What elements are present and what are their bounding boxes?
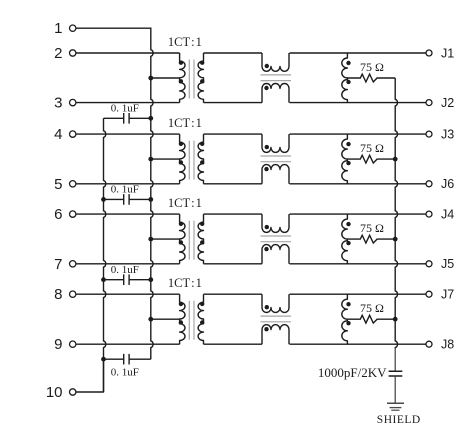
- junction: capacitor C3 left plate on bus: [101, 277, 106, 282]
- ground (shield) symbol: [387, 403, 404, 410]
- transformer T4 core: [189, 301, 194, 340]
- polarity dot T2 primary lower: [179, 160, 183, 164]
- wire T2 secondary top to choke: [204, 133, 263, 135]
- pin 9 terminal: [54, 336, 76, 353]
- svg-text:1CT : 1: 1CT : 1: [168, 35, 202, 49]
- junction: T2 center tap on bus: [148, 157, 153, 162]
- svg-text:75 Ω: 75 Ω: [360, 301, 384, 315]
- svg-text:4: 4: [54, 126, 62, 143]
- wire T3 secondary top to choke: [204, 213, 263, 215]
- wire termination rail (vertical, to shield capacitor): [395, 78, 397, 348]
- resistor 75 ohm block 2: [347, 155, 395, 163]
- wire pin 4 to T2 primary top: [76, 133, 179, 135]
- pin 10 terminal: [46, 384, 76, 401]
- svg-text:J4: J4: [441, 208, 454, 222]
- wire T2 center tap: [151, 158, 180, 160]
- terminal J3: [426, 128, 454, 142]
- polarity dot T3 secondary upper: [200, 222, 204, 226]
- transformer T1 core: [189, 60, 194, 99]
- svg-text:5: 5: [54, 176, 62, 193]
- transformer T1 secondary winding: [198, 53, 203, 103]
- junction: capacitor C1 left plate on bus: [0, 0, 1, 1]
- choke L1 upper winding: [262, 53, 289, 71]
- transformer T3 secondary winding: [198, 214, 203, 264]
- resistor 75 ohm block 1: [347, 74, 395, 82]
- wire T1 secondary bottom to choke: [204, 102, 263, 104]
- svg-text:0. 1uF: 0. 1uF: [111, 264, 139, 276]
- transformer T2 secondary winding: [198, 134, 203, 184]
- wire T2 secondary bottom to choke: [204, 183, 263, 185]
- choke L2 lower winding: [262, 165, 289, 184]
- polarity dot autotransformer 1 lower: [346, 80, 350, 84]
- junction: capacitor C1 right plate on bus: [148, 116, 153, 121]
- wire capacitor bus (pin 10 net, vertical): [104, 118, 106, 392]
- junction: capacitor C2 left plate on bus: [101, 197, 106, 202]
- svg-text:75 Ω: 75 Ω: [360, 221, 384, 235]
- terminal J8: [426, 338, 454, 352]
- polarity dot choke L1 lower: [264, 86, 268, 90]
- wire T1 center tap: [151, 77, 180, 79]
- junction: T4 center tap on bus: [148, 317, 153, 322]
- polarity dot T1 primary lower: [179, 79, 183, 83]
- polarity dot choke L2 lower: [264, 167, 268, 171]
- wire choke to J2 (bottom): [290, 102, 426, 104]
- polarity dot T4 primary upper: [179, 302, 183, 306]
- svg-text:8: 8: [54, 286, 62, 303]
- wire pin 5 to T2 primary bottom: [76, 183, 179, 185]
- wire T4 center tap: [151, 318, 180, 320]
- polarity dot T3 primary upper: [179, 222, 183, 226]
- polarity dot T3 secondary lower: [200, 240, 204, 244]
- terminal J1: [426, 46, 454, 60]
- choke L2 upper winding: [262, 134, 289, 152]
- wire pin 8 to T4 primary top: [76, 293, 179, 295]
- polarity dot autotransformer 3 upper: [346, 222, 350, 226]
- svg-text:10: 10: [46, 384, 63, 401]
- svg-text:J1: J1: [441, 46, 454, 60]
- polarity dot autotransformer 2 lower: [346, 161, 350, 165]
- polarity dot T4 secondary lower: [200, 320, 204, 324]
- junction: capacitor C3 right plate on bus: [148, 277, 153, 282]
- polarity dot choke L1 upper: [265, 64, 269, 68]
- wire pin 2 to T1 primary top: [76, 52, 179, 54]
- junction: 75 ohm resistor 2 on termination rail: [393, 157, 398, 162]
- transformer T4 primary winding: [180, 294, 185, 344]
- polarity dot choke L2 upper: [265, 145, 269, 149]
- svg-text:1000pF/2KV: 1000pF/2KV: [318, 365, 387, 380]
- pin 1 terminal: [54, 20, 76, 37]
- terminal J4: [426, 208, 454, 222]
- polarity dot T4 secondary upper: [200, 302, 204, 306]
- svg-text:75 Ω: 75 Ω: [360, 60, 384, 74]
- resistor 75 ohm block 4: [347, 315, 395, 323]
- wire T3 secondary bottom to choke: [204, 263, 263, 265]
- choke L1 core: [261, 75, 292, 81]
- choke L4 core: [261, 316, 292, 322]
- transformer T1 primary winding: [180, 53, 185, 103]
- wire choke to J1 (top): [290, 52, 426, 54]
- choke L4 upper winding: [262, 294, 289, 312]
- choke L3 core: [261, 236, 292, 242]
- svg-text:J5: J5: [441, 257, 454, 271]
- terminal J2: [426, 96, 454, 110]
- polarity dot autotransformer 1 upper: [346, 61, 350, 65]
- wire choke to J5 (bottom): [290, 263, 426, 265]
- polarity dot autotransformer 4 lower: [346, 321, 350, 325]
- capacitor C1 0.1uF: [104, 113, 151, 124]
- wire pin 10 to capacitor bus: [76, 359, 103, 392]
- svg-text:J7: J7: [441, 288, 454, 302]
- wire pin 1 to center-tap bus: [76, 27, 151, 29]
- svg-text:1CT : 1: 1CT : 1: [168, 276, 202, 290]
- transformer T2 primary winding: [180, 134, 185, 184]
- polarity dot autotransformer 4 upper: [346, 302, 350, 306]
- polarity dot choke L4 lower: [264, 327, 268, 331]
- svg-text:9: 9: [54, 336, 62, 353]
- svg-text:1CT : 1: 1CT : 1: [168, 116, 202, 130]
- polarity dot choke L4 upper: [265, 305, 269, 309]
- autotransformer coil block 3: [342, 214, 348, 264]
- capacitor 1000pF/2KV: [389, 371, 403, 376]
- choke L4 lower winding: [262, 325, 289, 345]
- transformer T3 core: [189, 221, 194, 260]
- polarity dot autotransformer 2 upper: [346, 142, 350, 146]
- wire T4 secondary top to choke: [204, 293, 263, 295]
- wire center-tap bus (pin 1 net, vertical): [151, 28, 153, 359]
- polarity dot T4 primary lower: [179, 320, 183, 324]
- wire T4 secondary bottom to choke: [204, 343, 263, 345]
- wire choke to J7 (top): [290, 293, 426, 295]
- polarity dot T1 secondary lower: [200, 79, 204, 83]
- pin 2 terminal: [54, 45, 76, 62]
- polarity dot choke L3 lower: [264, 247, 268, 251]
- wire pin 3 to T1 primary bottom: [76, 102, 179, 104]
- pin 8 terminal: [54, 286, 76, 303]
- svg-text:1: 1: [54, 20, 62, 37]
- svg-text:J8: J8: [441, 338, 454, 352]
- choke L1 lower winding: [262, 84, 289, 103]
- pin 3 terminal: [54, 95, 76, 112]
- svg-text:SHIELD: SHIELD: [377, 414, 421, 426]
- svg-text:0. 1uF: 0. 1uF: [111, 184, 139, 196]
- wire choke to J4 (top): [290, 213, 426, 215]
- svg-text:J6: J6: [441, 177, 454, 191]
- wire termination rail lower segment to shield capacitor: [394, 348, 396, 371]
- svg-text:6: 6: [54, 206, 62, 223]
- svg-text:J3: J3: [441, 128, 454, 142]
- terminal J5: [426, 257, 454, 271]
- resistor 75 ohm block 3: [347, 235, 395, 243]
- choke L3 upper winding: [262, 214, 289, 232]
- polarity dot T2 secondary upper: [200, 142, 204, 146]
- pin 6 terminal: [54, 206, 76, 223]
- wire T3 center tap: [151, 238, 180, 240]
- wire T1 secondary top to choke: [204, 52, 263, 54]
- svg-text:75 Ω: 75 Ω: [360, 141, 384, 155]
- transformer T2 core: [189, 141, 194, 180]
- polarity dot T1 primary upper: [179, 61, 183, 65]
- svg-text:2: 2: [54, 45, 62, 62]
- svg-text:1CT : 1: 1CT : 1: [168, 196, 202, 210]
- polarity dot T2 primary upper: [179, 142, 183, 146]
- wire pin 7 to T3 primary bottom: [76, 263, 179, 265]
- choke L2 core: [261, 156, 292, 162]
- wire choke to J3 (top): [290, 133, 426, 135]
- capacitor C3 0.1uF: [104, 274, 151, 285]
- junction: T3 center tap on bus: [148, 237, 153, 242]
- svg-text:3: 3: [54, 95, 62, 112]
- svg-text:J2: J2: [441, 96, 454, 110]
- pin 7 terminal: [54, 256, 76, 273]
- polarity dot choke L3 upper: [265, 225, 269, 229]
- pin 5 terminal: [54, 176, 76, 193]
- wire pin 9 to T4 primary bottom: [76, 343, 179, 345]
- autotransformer coil block 4: [342, 294, 348, 344]
- junction: 75 ohm resistor 4 on termination rail: [393, 317, 398, 322]
- junction: capacitor C4 left plate on bus: [101, 357, 106, 362]
- polarity dot T3 primary lower: [179, 240, 183, 244]
- wire pin 6 to T3 primary top: [76, 213, 179, 215]
- junction: T1 center tap on bus: [148, 76, 153, 81]
- polarity dot T2 secondary lower: [200, 160, 204, 164]
- junction: capacitor C2 right plate on bus: [148, 197, 153, 202]
- terminal J7: [426, 288, 454, 302]
- pin 4 terminal: [54, 126, 76, 143]
- polarity dot T1 secondary upper: [200, 61, 204, 65]
- transformer T4 secondary winding: [198, 294, 203, 344]
- junction: 75 ohm resistor 3 on termination rail: [393, 237, 398, 242]
- capacitor C4 0.1uF: [104, 354, 151, 365]
- autotransformer coil block 1: [342, 53, 348, 103]
- wire choke to J8 (bottom): [290, 343, 426, 345]
- svg-text:7: 7: [54, 256, 62, 273]
- capacitor C2 0.1uF: [104, 194, 151, 205]
- terminal J6: [426, 177, 454, 191]
- svg-text:0. 1uF: 0. 1uF: [111, 103, 139, 115]
- wire choke to J6 (bottom): [290, 183, 426, 185]
- svg-text:0. 1uF: 0. 1uF: [111, 366, 139, 378]
- polarity dot autotransformer 3 lower: [346, 241, 350, 245]
- transformer T3 primary winding: [180, 214, 185, 264]
- autotransformer coil block 2: [342, 134, 348, 184]
- choke L3 lower winding: [262, 245, 289, 264]
